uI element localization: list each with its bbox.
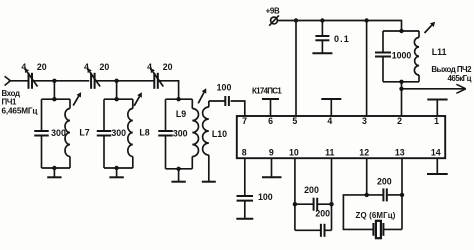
svg-text:+9В: +9В [266,7,280,16]
svg-text:L8: L8 [139,128,149,138]
node pin13 junction [400,193,404,197]
svg-text:1000: 1000 [392,50,412,60]
ground (tank2) [116,168,118,177]
ground (pin 14) [436,158,438,174]
ground up (pin 6) [270,99,272,116]
wire C2 to node B [95,80,117,82]
inductor L10 [208,101,210,107]
svg-text:8: 8 [242,148,247,158]
svg-text:100: 100 [258,192,273,202]
output arrow [456,84,465,93]
svg-text:4: 4 [327,116,332,126]
svg-text:4: 4 [84,62,89,72]
svg-text:11: 11 [325,148,334,158]
wire quartz right branch [383,228,402,230]
svg-text:12: 12 [359,148,369,158]
svg-text:1: 1 [434,116,439,126]
wire node A to C2 [54,80,89,82]
svg-text:L10: L10 [212,129,227,139]
svg-text:L9: L9 [176,109,186,119]
wire L10 top to C100 [209,100,225,102]
node L11 tank top junction [399,29,403,33]
ground up (pin 4) [330,99,332,116]
svg-text:L7: L7 [79,128,89,138]
ground (tank1) [53,168,55,177]
node B junction [114,79,118,83]
node rail-pin3 junction [364,18,368,22]
wire node A down to tank1 [53,81,55,99]
trimmer capacitor C1 4/20 [28,73,30,89]
node tank3 bottom junction [176,167,180,171]
node rail-pin5 junction [294,18,298,22]
node tank2 top junction [114,97,118,101]
ground (0.1 cap) [312,52,332,54]
trimmer capacitor C3 4/20 [153,73,155,89]
node pin10 junction [293,202,297,206]
svg-text:300: 300 [51,128,66,138]
wire pin 3 riser [366,21,368,117]
wire input to C1 [9,80,29,82]
node A junction [52,79,56,83]
node rail-C0.1 junction [320,18,324,22]
capacitor 300 (tank2) and loop [104,98,133,100]
svg-text:465кГц: 465кГц [448,74,472,83]
wire C1 to node A [32,80,54,82]
capacitor 200 (upper, pins 10-11) [295,203,314,205]
svg-text:200: 200 [304,185,319,195]
svg-text:300: 300 [111,128,126,138]
wire C100 to pin 7 [231,101,245,116]
node pin12 junction [365,193,369,197]
trimmer arrow (L11) [425,25,432,33]
wire pin 10 drop [294,158,296,230]
ground (tank3) [178,169,180,182]
tank L11 bottom rail [383,81,419,83]
svg-text:ZQ (6МГц): ZQ (6МГц) [356,211,396,220]
node tank2 bottom junction [114,166,118,170]
svg-text:Выход ПЧ2: Выход ПЧ2 [431,65,472,74]
svg-text:300: 300 [173,129,188,139]
wire node B to C3 [117,80,155,82]
node tank1 top junction [52,97,56,101]
ground (pin 9) [271,158,273,177]
input terminal arrow (Вход) [5,76,11,85]
svg-text:14: 14 [431,148,441,158]
svg-text:2: 2 [397,116,402,126]
svg-text:200: 200 [315,209,330,219]
svg-text:L11: L11 [432,47,447,57]
svg-text:10: 10 [289,148,299,158]
capacitor 0.1 decoupling [321,21,323,37]
svg-text:6,465МГц: 6,465МГц [2,107,38,116]
capacitor 1000 and tank L11 top rail [383,30,419,32]
wire pin 5 riser [295,21,297,117]
wire pin 2 riser [401,82,403,116]
svg-text:20: 20 [37,62,47,72]
wire node B down to tank2 [116,81,118,99]
svg-text:4: 4 [21,62,26,72]
svg-text:100: 100 [217,82,232,92]
svg-text:4: 4 [147,62,152,72]
trimmer arrow (L7) [73,96,79,105]
capacitor 200 (pins 12-13) [367,194,384,196]
capacitor 300 (tank3) and loop L9 [166,98,193,100]
wire pin 13 drop [401,158,403,229]
capacitor 100 (pin 8) [237,195,254,197]
node L11 bottom junction [399,80,403,84]
capacitor 300 (tank1) and loop [42,98,71,100]
svg-text:20: 20 [100,62,110,72]
svg-text:ПЧ1: ПЧ1 [2,98,18,107]
svg-text:0.1: 0.1 [334,34,350,44]
node pin11 junction [329,202,333,206]
op-amp U1 К174ПС1 body [237,116,445,158]
quartz crystal ZQ [372,223,374,236]
node tank3 top junction [176,97,180,101]
capacitor 100 (coupling) [224,96,226,106]
trimmer capacitor C2 4/20 [90,73,92,89]
svg-text:7: 7 [242,116,247,126]
wire pin 8 drop [244,158,246,196]
svg-text:13: 13 [395,148,405,158]
svg-text:9: 9 [269,148,274,158]
ground (pin 8 cap) [236,218,253,220]
wire C3 to L9 tank corner [158,81,179,99]
svg-text:200: 200 [377,177,392,187]
inductor L11 [418,31,420,38]
wire quartz left branch [343,195,373,230]
power terminal +9В [271,17,278,24]
wire pin 11 drop [331,158,333,230]
ground (L10) [202,181,216,183]
trimmer arrow (L8) [134,96,139,105]
svg-text:К174ПС1: К174ПС1 [252,87,282,96]
node output junction [399,87,403,91]
trimmer arrow (L9/L10) [198,92,204,103]
svg-text:20: 20 [163,62,173,72]
svg-text:6: 6 [268,116,273,126]
capacitor 200 (lower loop) [295,229,321,231]
wire output line [402,88,465,90]
node tank1 bottom junction [52,166,56,170]
wire +9В rail [277,21,401,32]
ground up (pin 1) [436,100,438,117]
svg-text:5: 5 [292,116,297,126]
svg-text:3: 3 [362,116,367,126]
wire pin 12 drop [366,158,368,195]
